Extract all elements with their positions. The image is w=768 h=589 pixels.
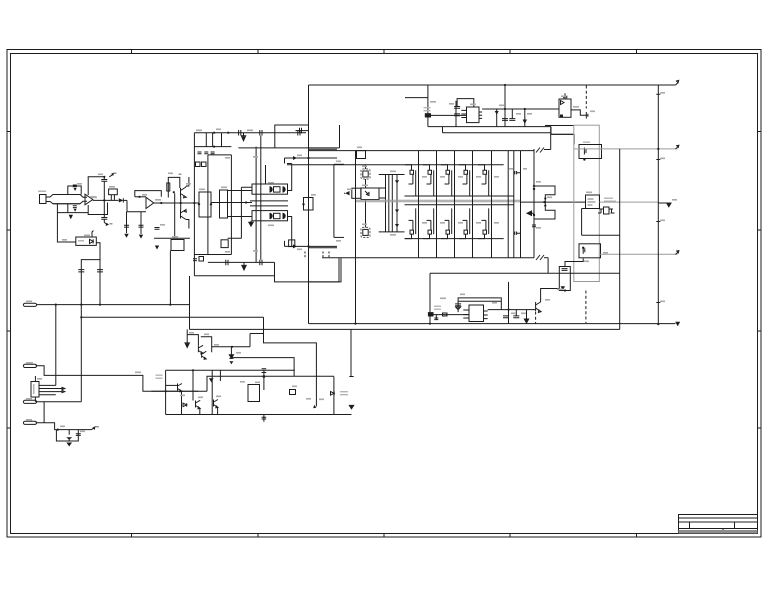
vertical x574.1	[573, 134, 575, 144]
capacitor C5 plates	[78, 270, 84, 272]
junction dot fb2	[103, 176, 105, 178]
op-amp U3 triangle	[146, 197, 154, 208]
Q4 box	[201, 337, 212, 353]
T1 left feed vertical	[228, 187, 253, 238]
cluster left edge	[165, 370, 167, 414]
mosfet Q5A top	[478, 165, 489, 196]
wire y357.6	[231, 358, 294, 377]
wire P y323.6	[309, 323, 676, 325]
rail tick 1	[656, 93, 663, 94]
border tick bottom 1	[131, 533, 133, 538]
wire opto right down	[99, 260, 101, 305]
junction dot x505 y109	[504, 108, 506, 110]
transistor Q2	[181, 210, 187, 220]
ground arrow block top	[241, 133, 245, 141]
terminal arrow top right	[676, 80, 679, 85]
collector wire y391.3	[151, 390, 207, 392]
vertical x496.7	[496, 109, 498, 127]
border frame inner	[11, 54, 758, 534]
cap C13 series plates	[298, 130, 300, 136]
sense down wire	[582, 209, 586, 236]
pwm2 loop above	[458, 298, 501, 312]
transformer T2 core a	[391, 175, 393, 232]
border tick left 1	[7, 131, 11, 133]
junction dot rail y324	[657, 323, 659, 325]
wire diode stub	[344, 192, 345, 194]
wire fuse2 to IC	[434, 314, 470, 316]
U8 top pin cap	[563, 93, 567, 98]
vert v221	[221, 133, 223, 147]
wire block mid feed	[211, 202, 252, 204]
border tick bottom 5	[636, 533, 638, 538]
right frame top stub	[334, 163, 344, 165]
inner top line T2	[285, 157, 338, 159]
driver box U4	[361, 169, 370, 179]
T1 top winding marks	[270, 186, 286, 192]
junction dot zener	[231, 346, 233, 348]
cap bottom between verticals	[514, 232, 521, 235]
K2 dot above	[582, 247, 584, 249]
rail tick 4	[656, 301, 663, 302]
U10 left pins	[463, 310, 469, 318]
T2 left stub top	[379, 187, 386, 189]
wire Q collector bottom	[186, 220, 189, 229]
capacitor C2 plates	[101, 180, 107, 182]
mosfet Q3A top	[441, 165, 452, 196]
diode arrow top	[293, 156, 297, 160]
IC U7 box	[467, 107, 480, 123]
box A	[199, 192, 211, 217]
ground diode x526.5	[524, 310, 528, 323]
transistor Q5	[202, 351, 207, 359]
inner frame top	[208, 154, 232, 156]
cap C18 plates	[502, 119, 508, 121]
wire stage2 input elbow	[127, 200, 146, 211]
junction dot R3	[173, 191, 175, 193]
sense loop lower	[534, 202, 555, 219]
capacitor C9 branch	[126, 212, 128, 233]
pwm1 bottom step	[551, 127, 574, 135]
mosfet column 5 vertical	[491, 151, 493, 258]
border tick right 1	[757, 131, 762, 133]
cluster rail B y370.3	[166, 369, 295, 371]
driver box U5 opto	[361, 188, 379, 200]
small component a	[196, 162, 201, 167]
ground arrow RC	[66, 443, 72, 447]
wire stage2 plus input	[135, 196, 146, 198]
junction dot x308 a	[307, 157, 309, 159]
node 3 terminal arrow	[109, 173, 113, 177]
capacitor C9 plates	[124, 225, 129, 227]
junction dot top a	[213, 132, 215, 134]
gray net lower	[356, 201, 521, 203]
capacitor C3 plates	[101, 218, 107, 220]
node 2 terminal arrow	[104, 223, 108, 226]
drive vertical x351 lower	[350, 329, 352, 377]
mosfet Q1A top	[405, 165, 416, 196]
block inner line 2	[238, 147, 339, 149]
capacitor C8 plates	[76, 434, 81, 436]
transformer T1 vertical b	[260, 136, 262, 260]
U7 right pins	[479, 112, 482, 118]
transformer T1 core lines	[250, 201, 288, 206]
junction dot x170.4	[169, 304, 171, 306]
mid wire y109	[482, 108, 559, 110]
cap C11 plates	[155, 228, 160, 230]
node 2 label	[110, 223, 113, 225]
mid wire y309.6	[488, 309, 536, 311]
vertical x220.4	[219, 370, 221, 381]
notch box left	[221, 240, 228, 248]
U8 inner mark top	[561, 101, 565, 105]
junction dot zener wire	[230, 357, 232, 359]
border tick top 1	[131, 50, 133, 55]
capacitor C4 plates	[73, 206, 77, 208]
transformer T1 winding top box	[252, 184, 288, 194]
vertical x508.5	[508, 282, 510, 324]
junction dot sense b	[544, 205, 546, 207]
border tick right 4	[757, 427, 762, 429]
T2 left stub bottom	[379, 197, 386, 199]
capacitor C1 arrow	[74, 188, 77, 191]
ground arrow block bottom	[242, 262, 246, 270]
sense box U9	[586, 195, 600, 209]
relay coil tick	[586, 112, 588, 119]
wire W1 drop	[264, 317, 317, 406]
diode arrow bottom	[293, 244, 297, 248]
notch box below rail	[357, 151, 366, 159]
U8 inner tick bottom	[560, 115, 563, 118]
node 3 label RC	[96, 426, 100, 428]
junction dot +5V x55.8	[55, 304, 57, 306]
cap C19 plates	[509, 119, 515, 121]
op-amp U3 output wire	[154, 202, 199, 204]
wire fuse to IC	[431, 114, 467, 116]
notch box right	[289, 240, 295, 247]
DB9 bottom pin wire	[34, 397, 36, 402]
T1 ground arrow	[249, 221, 253, 226]
gate dash marks bottom	[305, 252, 329, 258]
mid vertical x193	[192, 370, 194, 400]
DB9 pin4 wire	[39, 394, 56, 396]
sense sub stubs	[598, 209, 615, 213]
wire input pair top	[53, 194, 80, 196]
rail x658.3	[657, 85, 659, 324]
cap C11b series plates	[239, 130, 241, 136]
relay K1 box	[579, 145, 602, 159]
block left edge	[193, 133, 195, 276]
top long wire y85	[309, 84, 676, 86]
K2 coil tick	[583, 247, 585, 254]
block top edge	[194, 132, 306, 134]
connector J1 label	[38, 191, 46, 193]
mosfet Q1B bottom	[405, 208, 416, 238]
junction dot stage2	[138, 196, 140, 198]
tag +5V pill	[23, 303, 36, 306]
U10 right pins	[484, 311, 488, 319]
inner frame right	[230, 155, 232, 255]
tag TXD pill	[23, 400, 36, 403]
border tick top 3	[383, 50, 385, 55]
vert v206	[205, 133, 207, 147]
diode D1 bar	[122, 198, 124, 202]
feedback loop 1 top wire	[68, 186, 81, 195]
relay R1 box	[559, 267, 570, 291]
cap C22 plates	[513, 316, 519, 318]
mosfet column 1 vertical	[418, 151, 420, 258]
wire to stage 2	[123, 199, 127, 201]
mosfet column 4 vertical	[472, 151, 474, 258]
junction dot sense a	[544, 197, 546, 199]
T2 top link	[379, 174, 405, 176]
cap bottom left plates	[193, 259, 197, 261]
box A dot right	[210, 203, 212, 205]
gray net y254.3	[600, 253, 678, 255]
junction dot x534 y186	[533, 185, 535, 187]
border tick bottom 3	[383, 533, 385, 538]
wire input pair bottom	[53, 203, 80, 205]
T2 arrow 2	[395, 210, 399, 213]
small box x291	[290, 390, 296, 395]
series box on x308.5	[304, 198, 314, 211]
capacitor C6 plates	[97, 270, 103, 272]
tag +5V wire	[37, 304, 82, 306]
pwm2 loop line2	[458, 300, 501, 302]
transformer T2 winding c	[396, 175, 398, 232]
drain bus top	[405, 164, 504, 166]
DB9 pin1 riser	[55, 305, 57, 386]
array bus corner bottom	[547, 258, 549, 274]
junction dot x534 bottom	[533, 214, 535, 216]
vertical x456	[455, 101, 457, 127]
transistor Q6	[178, 384, 183, 392]
box B	[220, 190, 228, 218]
K1 label	[583, 142, 590, 143]
wire winding feed bottom	[228, 216, 252, 218]
small component b	[202, 162, 207, 167]
riser x189.5	[189, 276, 191, 329]
R1 top stub	[565, 259, 583, 267]
dashed vertical x535.6 low	[535, 312, 537, 324]
relay K2 box	[579, 244, 601, 258]
pwm2 top edge	[430, 272, 620, 274]
capacitor C4 arrow	[74, 209, 77, 212]
sense sub component	[604, 207, 610, 214]
cap stub y130.6	[296, 128, 309, 134]
capacitor C10 plates	[139, 225, 144, 227]
array vertical x520.5	[520, 151, 522, 258]
block bottom inner line	[208, 261, 275, 263]
sense labels	[604, 198, 613, 199]
array enclosure top edge	[443, 127, 551, 133]
DB9 pin3 wire arrow	[39, 391, 65, 393]
inner frame bottom	[208, 254, 232, 256]
pwm2 left edge	[429, 273, 431, 323]
junction dot block entry	[193, 202, 195, 204]
border tick bottom 2	[257, 533, 259, 538]
T1 bottom winding marks	[270, 213, 286, 219]
array vertical x534	[533, 149, 535, 258]
component reference labels (gray text marks)	[91, 197, 97, 199]
inner frame vertical	[207, 155, 209, 255]
junction dot feed	[245, 201, 247, 203]
mosfet Q2B bottom	[423, 208, 434, 238]
tag RXD pill	[23, 421, 36, 424]
tag RXD wire	[36, 402, 92, 430]
cap C21 plates	[503, 316, 509, 318]
vertical x516.3 short	[515, 310, 517, 316]
lower loop wire	[58, 204, 89, 213]
wire y247.7 right stub	[309, 247, 338, 249]
arrow terminal P	[675, 322, 680, 326]
junction dot RC node	[57, 429, 59, 431]
block top step	[275, 125, 309, 148]
ground arrow stage2 a	[124, 234, 128, 238]
Q3 collector wire	[541, 289, 560, 303]
junction dot P x430	[429, 323, 431, 325]
tag TXD wire	[36, 401, 82, 403]
mosfet Q2A top	[423, 165, 434, 196]
junction dot out a	[543, 201, 545, 203]
cap C12 series plates	[260, 130, 262, 136]
op-amp output wire	[93, 199, 119, 201]
border tick top 5	[636, 50, 638, 55]
junction dot x524.8	[524, 108, 526, 110]
zener D3	[229, 347, 233, 359]
optocoupler U2 label	[78, 240, 84, 242]
R1 bottom dot	[564, 289, 566, 291]
wire Q1 Q2 join	[180, 196, 182, 211]
Q7 emitter drop	[199, 408, 201, 415]
T2 arrow 1	[395, 180, 399, 183]
vertical x171.9 upper	[174, 193, 176, 238]
lower feedback wire	[88, 203, 107, 215]
vertical x212.2	[211, 370, 213, 414]
cluster label	[156, 375, 163, 376]
border tick left 2	[7, 229, 11, 231]
cap C14 series plates	[226, 260, 228, 266]
cluster bottom edge	[166, 414, 352, 416]
arrow terminal y149	[676, 145, 679, 149]
gray net upper	[356, 199, 521, 201]
K1 dot below	[583, 158, 585, 160]
resistor R bump	[443, 313, 448, 316]
array bus corner top	[550, 127, 552, 150]
block bottom edge	[194, 275, 274, 277]
transformer T1 winding bottom box	[252, 211, 288, 221]
IC U8 box	[559, 99, 571, 117]
cap top between verticals	[514, 171, 521, 174]
wire J1 pin1	[46, 195, 87, 198]
source bus top	[405, 195, 514, 197]
transformer T2 winding b	[388, 175, 390, 232]
cluster rail C y376.2	[207, 376, 334, 391]
drain bus bottom	[405, 204, 514, 206]
diode D2 arrow	[495, 111, 499, 115]
stage1 left drop wire	[57, 204, 75, 242]
cap marker x534	[532, 225, 536, 227]
optocoupler U2 box	[76, 237, 97, 245]
DB9 pin1 wire	[39, 384, 56, 386]
block top inner line	[194, 146, 231, 148]
T1 right riser bottom	[288, 217, 292, 247]
ground arrow stage2 b	[139, 235, 143, 239]
vertical x524.8	[524, 109, 526, 127]
dashed vertical x574.2	[585, 291, 587, 324]
junction dot +5V x82	[80, 304, 82, 306]
connector J1 box	[40, 195, 47, 204]
W1 junction blob	[263, 375, 266, 378]
fuse F2 label	[434, 306, 441, 307]
transformer T2 winding a	[385, 175, 387, 232]
optocoupler U2 diode	[90, 239, 94, 243]
x351.5 marks	[349, 377, 353, 409]
rail bottom continue	[544, 257, 548, 259]
crystal Y1 box	[109, 189, 118, 195]
stage2 upper loop	[168, 177, 180, 197]
T2 bottom link	[379, 231, 405, 233]
wire J1 pin2	[46, 201, 87, 204]
drive vertical x355.5	[355, 151, 357, 324]
tag CON wire	[36, 366, 199, 392]
inner frame bottom stub	[194, 254, 208, 256]
diode arrow at x534	[527, 211, 534, 215]
diode D5	[209, 378, 214, 382]
border tick right 2	[757, 229, 762, 231]
DB9 connector box	[31, 382, 39, 398]
pwm1 bottom edge 2	[545, 125, 574, 127]
wire Q y329.4	[190, 328, 620, 330]
array vertical x508.2	[507, 151, 509, 258]
RC loop outline	[56, 430, 78, 441]
junction dot P x355	[354, 323, 356, 325]
wire opto left down	[81, 243, 100, 305]
mosfet column 3 vertical	[454, 151, 456, 258]
K1 coil tick	[584, 148, 586, 155]
Q8 emitter drop	[217, 407, 219, 415]
wire y235.2	[582, 234, 620, 236]
gray box	[574, 125, 600, 281]
junction dot U3 out	[160, 202, 162, 204]
right frame vertical x334	[333, 164, 335, 237]
cap C17 plates	[454, 114, 460, 116]
opto top pin wire	[92, 231, 94, 238]
DB9 top pin wire	[34, 376, 36, 382]
block bottom step	[275, 262, 340, 282]
hook T2 top	[284, 158, 286, 164]
cap row c plates	[211, 152, 215, 154]
fuse F1 label	[424, 107, 431, 108]
node 1 label	[179, 174, 182, 176]
stage2 lower wire	[154, 237, 190, 239]
bottom block box right edge	[309, 258, 342, 282]
transformer T1 vertical a	[255, 147, 257, 263]
fuse F1 box	[425, 113, 431, 117]
input diode box	[352, 188, 361, 198]
dashed wire relay	[585, 86, 587, 109]
title block row line 3	[679, 528, 758, 530]
capacitor C7 branch	[68, 430, 70, 441]
pwm1 left edge	[427, 85, 429, 127]
junction dot x505 y85	[504, 84, 506, 86]
junction dot +5V x101	[99, 304, 101, 306]
W1 blob stub	[262, 369, 267, 390]
diode D4	[183, 403, 187, 406]
top sub entry	[187, 335, 198, 346]
top sub ground arrow	[185, 329, 189, 347]
U5 inner arrow	[365, 191, 369, 196]
rail top y150.6	[309, 150, 535, 152]
